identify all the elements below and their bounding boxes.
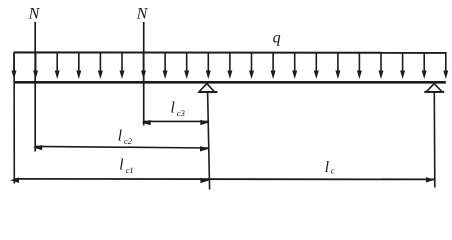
svg-text:N: N bbox=[28, 6, 41, 23]
svg-text:c: c bbox=[331, 166, 335, 176]
svg-text:c1: c1 bbox=[126, 165, 134, 175]
extension line under support 2 bbox=[433, 92, 436, 188]
svg-text:c3: c3 bbox=[177, 108, 185, 118]
lc right arrow bbox=[426, 177, 435, 182]
force N1 line bbox=[34, 22, 36, 152]
dimension line lc3 bbox=[144, 120, 210, 122]
svg-text:N: N bbox=[136, 6, 149, 23]
svg-text:c2: c2 bbox=[124, 136, 133, 146]
svg-text:q: q bbox=[273, 30, 281, 47]
support 2 triangle bbox=[426, 84, 442, 92]
lc2 left arrow bbox=[33, 145, 42, 150]
support 1 base line bbox=[199, 91, 218, 93]
lc2 right arrow bbox=[200, 146, 209, 151]
extension line under support 1 bbox=[208, 92, 210, 190]
lc1 right arrow bbox=[200, 178, 209, 183]
support 2 base line bbox=[424, 91, 444, 93]
lc3 left arrow bbox=[142, 120, 151, 125]
svg-text:l: l bbox=[171, 99, 175, 116]
svg-text:l: l bbox=[119, 157, 123, 174]
lc1 left arrow bbox=[10, 178, 19, 183]
distributed load arrows bbox=[12, 53, 449, 80]
support 1 triangle bbox=[199, 84, 215, 92]
dimension line lc2 bbox=[35, 146, 209, 148]
force N2 line bbox=[143, 22, 145, 126]
extension line at left beam end bbox=[13, 53, 15, 184]
load line (top of distributed load) bbox=[14, 51, 447, 53]
svg-text:l: l bbox=[118, 127, 122, 144]
svg-text:l: l bbox=[325, 159, 329, 176]
lc3 right arrow bbox=[200, 120, 209, 125]
beam bbox=[14, 81, 446, 84]
bottom dimension line lc1 / lc bbox=[14, 178, 435, 181]
